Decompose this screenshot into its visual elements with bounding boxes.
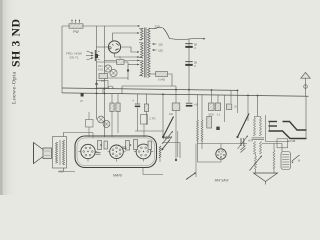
svg-text:0 (49): 0 (49) — [158, 77, 165, 81]
trimmer K1 — [104, 65, 111, 72]
wire drop x248 — [247, 95, 249, 121]
capacitor C1 electrolytic — [185, 42, 197, 49]
transformer T1 core — [145, 28, 146, 78]
tube socket V1 — [81, 144, 95, 158]
coil L1 box — [97, 81, 109, 94]
switch meander blade 1 — [269, 122, 307, 131]
label 220 — [154, 24, 159, 28]
coil L2 — [197, 95, 199, 162]
resistor R2 (UY21) — [156, 72, 168, 82]
wire vertical node A — [96, 26, 98, 120]
panel outline — [75, 136, 157, 168]
crystal X1 — [281, 152, 291, 170]
svg-text:+: + — [132, 99, 134, 103]
IF transformer Tr2 winding a — [253, 118, 255, 136]
resistor R12 in panel — [134, 140, 138, 150]
wire U2 stem — [220, 144, 222, 149]
resistor R14 — [110, 94, 114, 137]
coil L6 — [159, 146, 161, 158]
wire box left — [121, 86, 123, 94]
wire box right — [175, 86, 177, 90]
wire drop x224.5 — [224, 95, 226, 122]
svg-text:PW: PW — [73, 30, 79, 34]
label MANI — [113, 174, 122, 178]
wire T1 bottom to R2 — [151, 73, 156, 75]
resistor R3 (TL) — [117, 56, 125, 65]
ground arrow — [254, 173, 278, 185]
wire U1 cathode — [115, 53, 140, 58]
resistor R10 in panel — [104, 141, 108, 149]
switch S1 mains selector — [152, 27, 170, 38]
wire L5 to ground arrow — [273, 168, 275, 173]
tube U1 — [108, 41, 120, 53]
resistor R6 — [208, 90, 214, 117]
junction dots — [95, 83, 258, 97]
box K3 — [141, 115, 156, 138]
resistor R17 tall — [207, 117, 220, 131]
wire long y143.5 — [197, 143, 247, 145]
trimmer K4 — [98, 116, 105, 123]
wire Tr3 to L4 — [255, 154, 257, 157]
switch blade A — [162, 117, 174, 139]
component on bus (m) — [80, 93, 84, 102]
IF transformer core lines — [252, 138, 265, 140]
trimmer K2 — [110, 69, 117, 76]
tube socket V2 — [110, 145, 124, 159]
svg-text:M.A: M.A — [248, 139, 253, 143]
switch meander links — [266, 115, 307, 142]
switch blade C — [161, 140, 170, 151]
svg-text:04 L: 04 L — [98, 64, 104, 68]
svg-text:DN 71: DN 71 — [70, 56, 79, 60]
capacitor C2 electrolytic — [185, 60, 197, 67]
tube socket V3 — [136, 144, 151, 159]
wire h y131 — [135, 130, 164, 132]
IF transformer Tr3 winding b — [259, 142, 261, 154]
wire U1 anode to T1 — [113, 32, 140, 41]
tube stubs in panel — [79, 152, 154, 162]
resistor R8 — [227, 90, 238, 109]
IF transformer Tr2 winding b — [259, 118, 261, 136]
wire drop x306 — [305, 96, 307, 122]
tap 125 — [152, 48, 163, 52]
output transformer Tr4 secondary — [63, 140, 65, 165]
wire panel right — [160, 143, 180, 163]
title SH 3 ND (vertical) — [10, 18, 23, 67]
coil L7 variable — [162, 131, 173, 144]
wire cap chain vertical — [188, 39, 190, 90]
annotation pen arrow — [186, 172, 196, 179]
resistor R1 (PW) with ticks — [69, 20, 83, 35]
wire drops into panel — [92, 133, 94, 139]
wire y143.5 to crystal — [262, 144, 282, 152]
switch blade B — [236, 90, 249, 138]
wire drop x196 — [195, 144, 197, 178]
svg-text:5000: 5000 — [208, 114, 214, 117]
capacitor C4 variable — [238, 135, 254, 149]
transformer T1 secondary winding — [148, 28, 152, 77]
wire U1 to T1 tap2 — [121, 47, 140, 53]
speaker magnet — [43, 148, 52, 159]
wire panel bottom right — [143, 168, 163, 175]
wire L4 to ground arrow — [255, 169, 257, 173]
wire speaker top — [64, 133, 94, 137]
lamp La1 (indicator) — [301, 72, 310, 96]
svg-text:C PO: C PO — [149, 118, 155, 121]
svg-text:MANI: MANI — [113, 174, 122, 178]
resistor R13 in panel — [148, 141, 152, 150]
output transformer Tr4 box — [53, 137, 67, 169]
label under speaker — [59, 170, 63, 174]
resistor R4 — [99, 74, 108, 84]
switch meander blade 2 — [269, 126, 307, 139]
svg-text:Loewe-Opta: Loewe-Opta — [12, 72, 18, 104]
annotation arrow at X1 — [291, 155, 300, 163]
wire y62 — [97, 61, 129, 63]
speaker LS cone — [34, 143, 44, 164]
svg-text:100: 100 — [169, 113, 174, 116]
wire box top — [122, 85, 176, 87]
svg-text:A 51: A 51 — [98, 68, 104, 72]
capacitor C5 — [132, 94, 140, 131]
capacitor C3 — [186, 90, 199, 107]
box K6 — [86, 112, 94, 137]
coil L4 variable — [250, 155, 263, 170]
wire speaker bottom — [58, 168, 75, 172]
box above crystal — [277, 139, 288, 148]
label MW SAW — [215, 178, 230, 182]
wire arrow under meander — [288, 140, 296, 142]
tube U2 — [216, 149, 226, 159]
resistor R15 — [116, 94, 120, 133]
bus line 2 — [62, 93, 309, 96]
trimmer K5 — [103, 121, 110, 128]
wire mains out — [170, 38, 206, 40]
output transformer Tr4 core — [59, 140, 61, 165]
label Frd.How — [66, 52, 82, 60]
wire U1 grid left — [97, 46, 109, 48]
wire Tr2 top — [255, 96, 261, 119]
wire top horizontal — [62, 25, 140, 27]
resistor R11 in panel — [126, 141, 130, 151]
mark hash — [241, 146, 246, 153]
resistor R9 in panel — [98, 141, 102, 150]
wire R2 right — [168, 74, 173, 86]
resistor R5 — [169, 90, 180, 161]
resistor R16 — [144, 94, 148, 125]
svg-text:SH 3 ND: SH 3 ND — [10, 18, 23, 67]
output transformer Tr4 primary — [56, 142, 58, 163]
IF transformer Tr3 winding a — [253, 142, 255, 154]
bus line 1 — [62, 88, 238, 90]
connector arrows into node A — [86, 50, 100, 61]
wire heater tap — [105, 60, 140, 62]
svg-text:PW: PW — [101, 79, 106, 83]
resistor R7 — [215, 95, 221, 117]
svg-text:TL: TL — [118, 56, 122, 60]
wire coil bottoms — [198, 159, 222, 162]
coil L3 — [201, 95, 203, 149]
svg-text:125: 125 — [158, 48, 163, 52]
wire hop — [108, 86, 113, 89]
svg-text:+50: +50 — [194, 102, 199, 106]
wire left vertical — [61, 26, 63, 93]
svg-text:MW SAW: MW SAW — [215, 178, 230, 182]
socket blob — [95, 54, 98, 58]
wire drop x163 — [162, 94, 164, 137]
wire vertical node B — [104, 26, 106, 137]
tap 110 — [152, 42, 163, 46]
title Loewe-Opta (vertical) — [12, 72, 18, 104]
wire right of cluster — [108, 62, 140, 80]
svg-text:110: 110 — [158, 42, 163, 46]
capacitor marks in panel — [96, 144, 132, 154]
transformer T1 primary winding — [139, 28, 143, 76]
coil L5 — [273, 151, 275, 169]
label 04L — [98, 64, 104, 72]
